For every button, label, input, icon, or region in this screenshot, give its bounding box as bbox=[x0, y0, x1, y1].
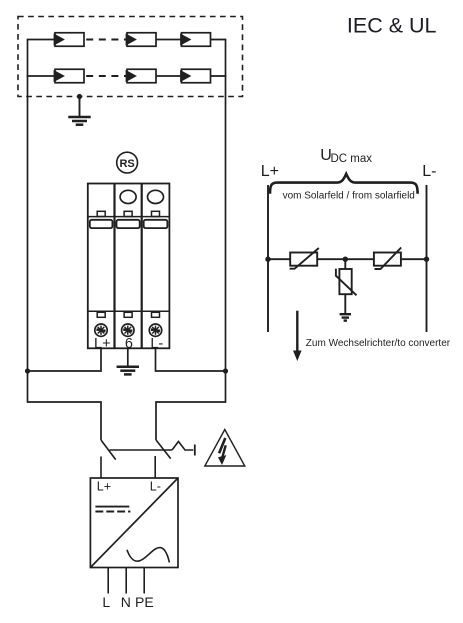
wire: left bus vertical bbox=[27, 40, 29, 372]
node: center junction bbox=[343, 257, 348, 262]
switch S1 mechanical linkage bbox=[110, 449, 173, 451]
wire: inverter output N bbox=[125, 568, 127, 594]
wire: L+ conductor vertical bbox=[267, 185, 269, 332]
SPD terminal screw L+ bbox=[95, 324, 107, 336]
PV module string2 #1 bbox=[54, 69, 84, 83]
SPD module 2 indicator window (circle) bbox=[120, 190, 136, 203]
wire: string 2 segment from left bus to PV4 bbox=[27, 75, 56, 77]
svg-text:6: 6 bbox=[125, 336, 133, 352]
arrow: to converter bbox=[293, 311, 302, 361]
wire: right bus vertical bbox=[225, 40, 227, 372]
SPD lower shoulder line bbox=[88, 310, 170, 312]
wire: frame earth lead bbox=[79, 97, 81, 117]
varistor RV1 (L+) bbox=[290, 248, 319, 269]
SPD bottom latch tabs bbox=[97, 312, 159, 317]
symbol: RS marking bbox=[117, 152, 138, 173]
node: right bus / SPD junction bbox=[223, 368, 228, 373]
wire: string 1 segment bbox=[156, 39, 182, 41]
switch thermal-disconnect zigzag bbox=[172, 442, 193, 451]
wire: string 1 segment to right bus bbox=[211, 39, 227, 41]
svg-text:DC max: DC max bbox=[331, 153, 373, 165]
ground: RV3 earth bbox=[340, 314, 351, 320]
svg-text:L: L bbox=[102, 594, 110, 610]
wire: string 2 dashed continuation bbox=[84, 75, 127, 77]
switch S1 pole 2 (blade) bbox=[156, 440, 171, 459]
wire: pole 2 to inverter L- bbox=[154, 456, 156, 479]
SPD terminal screw 6 bbox=[122, 324, 134, 336]
PV array frame (dashed) bbox=[18, 17, 243, 97]
switch thermal-disconnect end bar bbox=[194, 445, 196, 456]
PV module string1 #1 bbox=[54, 33, 84, 47]
PV module string1 #2 bbox=[126, 33, 156, 47]
svg-text:IEC & UL: IEC & UL bbox=[347, 13, 437, 37]
PV module string1 #3 bbox=[180, 33, 210, 47]
PV module string2 #3 bbox=[180, 69, 210, 83]
wire: inverter output L bbox=[107, 568, 109, 594]
wire: string 2 segment to right bus bbox=[211, 75, 227, 77]
switch S1 pole 1 (blade) bbox=[101, 440, 116, 460]
SPD terminal screw L- bbox=[149, 324, 161, 336]
SPD top latch tabs bbox=[97, 211, 159, 216]
svg-text:L+: L+ bbox=[97, 479, 111, 493]
wire: string 1 segment from left bus to PV1 bbox=[27, 39, 56, 41]
SPD shoulder line bbox=[88, 216, 170, 218]
svg-text:N: N bbox=[121, 594, 131, 610]
SPD label windows bbox=[90, 220, 168, 228]
svg-text:L-: L- bbox=[150, 336, 163, 352]
brace for U DC max bbox=[270, 174, 418, 194]
svg-text:Zum Wechselrichter/to converte: Zum Wechselrichter/to converter bbox=[306, 338, 451, 349]
PV module string2 #2 bbox=[126, 69, 156, 83]
wire: SPD earth lead bbox=[127, 348, 129, 365]
wire: string 2 segment bbox=[156, 75, 182, 77]
wire: right bus down to disconnector bbox=[156, 371, 226, 440]
svg-text:L+: L+ bbox=[94, 336, 111, 352]
svg-text:RS: RS bbox=[119, 158, 134, 170]
SPD U1 outline bbox=[88, 184, 170, 349]
wire: inverter output PE bbox=[143, 568, 145, 594]
wire: string 1 dashed continuation bbox=[84, 39, 127, 41]
svg-text:L+: L+ bbox=[261, 163, 279, 180]
varistor RV3 (center, to earth) bbox=[336, 269, 357, 296]
wire: pole 1 to inverter L+ bbox=[100, 457, 102, 479]
wire: left bus down to disconnector bbox=[28, 371, 102, 440]
svg-text:L-: L- bbox=[422, 163, 436, 180]
SPD module 3 indicator window (circle) bbox=[148, 190, 164, 203]
varistor RV2 (L-) bbox=[374, 248, 401, 270]
wire: SPD L+ to left bus bbox=[28, 348, 102, 371]
warning sign (lightning triangle) bbox=[205, 430, 245, 467]
node: L+ / varistor junction bbox=[265, 257, 270, 262]
inverter DC symbol bbox=[95, 507, 130, 512]
svg-text:L-: L- bbox=[150, 479, 161, 493]
wire: RV3 earth lead bbox=[344, 294, 346, 313]
ground: SPD earth bbox=[117, 367, 139, 375]
inverter U2 box bbox=[90, 478, 178, 568]
svg-text:PE: PE bbox=[135, 594, 154, 610]
wire: L- conductor vertical bbox=[426, 185, 428, 332]
node: left bus / SPD junction bbox=[25, 368, 30, 373]
wire: SPD L- to right bus bbox=[156, 348, 226, 371]
wire: protection branch horizontal bbox=[268, 258, 427, 260]
ground: PV frame earth bbox=[68, 117, 90, 125]
wire: center branch down bbox=[344, 259, 346, 269]
inverter AC sine symbol bbox=[127, 547, 169, 562]
node: L- / varistor junction bbox=[424, 257, 429, 262]
node: frame earth junction on dashed frame bbox=[77, 94, 82, 99]
svg-text:vom Solarfeld / from solarfiel: vom Solarfeld / from solarfield bbox=[283, 191, 415, 202]
